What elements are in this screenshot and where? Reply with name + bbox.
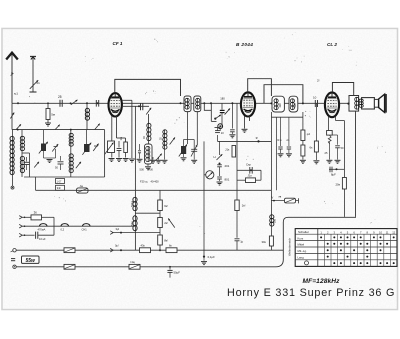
wire B+ joins corner xyxy=(282,249,284,251)
terminal heater 1 xyxy=(19,216,25,219)
svg-text:428: 428 xyxy=(294,103,297,108)
wire T2 bottom xyxy=(271,112,303,117)
svg-text:MF=128kHz: MF=128kHz xyxy=(303,278,341,285)
capacitor 50uF xyxy=(167,266,180,278)
node bus dot 2 xyxy=(210,102,212,104)
earth/ground terminal E1 xyxy=(30,57,37,93)
wire tube1 screen xyxy=(122,100,132,158)
antenna A1 xyxy=(6,53,18,104)
resistor 6k grid leak xyxy=(310,103,320,164)
ground trimmers left xyxy=(44,149,56,163)
trimmer C1 dark xyxy=(39,130,48,154)
svg-text:1м: 1м xyxy=(119,137,123,141)
svg-text:Wellenbereich: Wellenbereich xyxy=(288,237,292,256)
wire heater coil 500 xyxy=(131,197,137,210)
svg-text:3μ!: 3μ! xyxy=(116,227,120,231)
trimmer osc arrow xyxy=(156,154,162,161)
table row label Mittel-Lang xyxy=(298,249,308,253)
svg-text:V: V xyxy=(272,196,274,200)
wire tube2 plate loop xyxy=(248,79,272,96)
capacitor on bus 2 xyxy=(96,100,98,107)
ground tube1 screen xyxy=(129,159,135,162)
svg-text:20и: 20и xyxy=(336,183,341,187)
svg-text:CН1: CН1 xyxy=(82,227,88,231)
wire B- line y267 with corner xyxy=(16,217,356,266)
table row label Kurz xyxy=(298,236,304,240)
table switch-position grid xyxy=(295,229,397,267)
table side label Wellenbereich xyxy=(288,237,292,256)
resistor 8k chain xyxy=(158,235,168,245)
table row label gram xyxy=(305,261,309,265)
label B 2044 (IF amp section) xyxy=(236,42,253,47)
terminal mains a xyxy=(11,249,17,253)
speaker LS neck xyxy=(374,99,378,107)
ground osc2c xyxy=(156,157,162,163)
resistor mains a xyxy=(64,248,75,253)
resistor 30k xyxy=(262,226,274,250)
capacitor 201 xyxy=(217,163,230,169)
wire T1 to grid corner xyxy=(204,103,216,121)
label CL2 (output section) xyxy=(327,42,337,47)
wire diode line xyxy=(275,117,277,190)
coil L2 upper xyxy=(20,130,24,151)
phone jack D xyxy=(204,171,214,179)
speaker LS horn xyxy=(379,94,386,113)
node bus2 a xyxy=(17,129,19,131)
wire tube3 cathode leg xyxy=(328,117,330,131)
capacitor 50 left xyxy=(22,157,30,170)
node tube3 grid xyxy=(324,103,326,105)
svg-text:CL 2: CL 2 xyxy=(327,42,337,47)
switch S1 on bus xyxy=(70,100,78,105)
resistor J1k AF xyxy=(237,170,261,182)
capacitor grid2 xyxy=(229,102,235,138)
svg-text:1μ: 1μ xyxy=(240,240,243,244)
potentiometer 5M volume xyxy=(105,141,115,155)
wire tube3 right leg xyxy=(336,117,345,121)
svg-text:9пF: 9пF xyxy=(57,187,62,190)
resistor 1k heater xyxy=(22,211,54,236)
resistor 14ohm xyxy=(129,260,140,269)
wire B+ line y250 xyxy=(16,244,283,252)
title Horny E 331 Super Prinz 36 G xyxy=(227,287,395,299)
table header Schalter xyxy=(298,230,309,234)
capacitor under tube1 xyxy=(116,141,122,162)
svg-text:ю1: ю1 xyxy=(14,92,18,96)
svg-text:180: 180 xyxy=(220,97,225,101)
capacitor box 1-07 xyxy=(56,179,65,184)
table selection dots xyxy=(320,236,395,264)
label 2prime xyxy=(317,79,320,83)
switch H detector xyxy=(214,141,223,160)
switch osc xyxy=(146,108,151,124)
wire T2 left down xyxy=(270,117,272,190)
node 31 xyxy=(256,136,260,142)
resistor mains c xyxy=(64,264,75,269)
resistor 200 bias xyxy=(336,121,347,217)
svg-text:12: 12 xyxy=(392,230,395,234)
svg-text:2к!: 2к! xyxy=(164,221,168,225)
svg-text:500: 500 xyxy=(140,167,145,171)
capacitor AVC left xyxy=(215,128,225,142)
wire chassis line y190 xyxy=(36,189,272,191)
node antenna junction xyxy=(17,102,19,104)
label 55W box xyxy=(11,256,39,264)
svg-text:6к!: 6к! xyxy=(164,204,168,208)
wire tube2 leg gnd xyxy=(242,116,248,132)
wire AVC line y141 xyxy=(218,140,272,142)
trimmer C4 arrow xyxy=(93,144,98,151)
node bus dot 1 xyxy=(86,102,88,104)
trimmer grid arrow xyxy=(225,108,230,114)
coil L2 lower xyxy=(20,151,24,178)
trimmer C3 dark xyxy=(82,130,91,155)
resistor 43k xyxy=(140,243,151,252)
svg-text:2к!: 2к! xyxy=(242,204,246,208)
wire chain feed xyxy=(159,190,161,200)
IF transformer T2 coil b xyxy=(289,96,298,112)
capacitor 50 mid xyxy=(55,156,64,170)
ground pot xyxy=(109,153,115,162)
svg-text:801: 801 xyxy=(225,178,230,182)
coil L4 upper xyxy=(69,130,73,147)
terminal mains b xyxy=(13,265,16,268)
node T2 left xyxy=(270,102,272,104)
wire tube2 leg b xyxy=(249,116,251,121)
wire left bottom v xyxy=(35,177,37,190)
svg-text:J1к: J1к xyxy=(225,148,230,152)
wire T1 secondary down b xyxy=(196,112,198,145)
switch bus2 s2 xyxy=(55,125,60,130)
resistor 6k chain xyxy=(158,200,168,211)
resistor 6k2 xyxy=(166,243,177,252)
svg-text:470мА: 470мА xyxy=(38,227,46,231)
ground 1M xyxy=(123,153,129,162)
svg-text:10 нF: 10 нF xyxy=(39,237,46,241)
capacitor 10nF line3 xyxy=(22,232,54,241)
RF choke L3 xyxy=(85,103,89,129)
lamp bump 470mA xyxy=(38,224,48,232)
capacitor 0.1uF gnd xyxy=(201,141,215,264)
svg-text:CF 1: CF 1 xyxy=(113,41,123,46)
IF transformer T1 coil a xyxy=(184,96,191,112)
trimmer arrow C-ant xyxy=(30,80,40,89)
wire chain bottom xyxy=(159,245,161,251)
wire chain mid xyxy=(135,211,160,218)
svg-text:Schalter: Schalter xyxy=(298,230,309,234)
svg-text:50μF: 50μF xyxy=(174,271,181,275)
capacitor 0.1 coupling xyxy=(246,163,252,174)
label 1400 xyxy=(148,167,154,171)
svg-text:55w: 55w xyxy=(25,258,36,264)
padder cap 2 xyxy=(191,145,197,164)
capacitor osc pad xyxy=(137,144,143,162)
svg-text:H: H xyxy=(214,155,216,159)
svg-text:201: 201 xyxy=(225,164,230,168)
node speaker xyxy=(347,103,349,105)
label 40-400 xyxy=(151,180,160,184)
osc coil box xyxy=(145,141,153,165)
fuse F1 row xyxy=(271,195,298,203)
svg-text:3!: 3! xyxy=(256,136,259,140)
resistor 1M box xyxy=(119,137,128,153)
label 180 xyxy=(220,97,225,101)
fuse box Jw xyxy=(77,184,89,193)
capacitor series osc xyxy=(138,103,143,110)
svg-text:550: 550 xyxy=(274,218,277,223)
svg-text:500щ: 500щ xyxy=(131,201,134,207)
terminal L1 bottom xyxy=(11,186,14,189)
osc coil choke xyxy=(143,123,151,140)
switch bus2 s1 xyxy=(16,124,21,129)
wire AF line y170 xyxy=(237,169,261,171)
ground osc2b xyxy=(150,157,156,163)
capacitor 801 gnd xyxy=(217,167,230,185)
label F20 xyxy=(140,180,148,184)
coil L4 lower xyxy=(69,146,73,177)
pot arrow chain xyxy=(168,218,175,227)
antenna lead break xyxy=(11,72,14,75)
capacitor box 9nF xyxy=(56,185,65,190)
svg-text:428: 428 xyxy=(279,103,282,108)
speaker LS coil xyxy=(359,98,378,109)
resistor chain x303 xyxy=(300,117,311,163)
svg-text:10: 10 xyxy=(313,96,317,100)
wire antenna to bus2 xyxy=(11,103,13,129)
terminal heater 2 xyxy=(19,224,25,228)
lamp bump CF1 xyxy=(82,224,91,232)
svg-text:Ї400: Ї400 xyxy=(148,167,154,171)
svg-text:Mit.-Lg.: Mit.-Lg. xyxy=(298,249,308,253)
wire tube1 plate loop xyxy=(115,79,181,96)
svg-text:10: 10 xyxy=(379,230,382,234)
lamp bump CL2 xyxy=(61,224,69,232)
capacitor R0 gnd xyxy=(278,117,284,157)
padder dark cap xyxy=(179,144,187,161)
svg-text:40-400: 40-400 xyxy=(151,180,160,184)
svg-text:φ4: φ4 xyxy=(307,132,311,136)
antenna coil L1 xyxy=(10,130,14,186)
resistor J1k xyxy=(225,146,236,158)
capacitor a1 gnd xyxy=(286,117,292,157)
table row label Lang xyxy=(298,256,305,260)
svg-text:1·07: 1·07 xyxy=(57,180,62,183)
node T2 right xyxy=(302,102,304,104)
wire tube1 leg b xyxy=(117,116,126,142)
resistor cathode box xyxy=(327,131,333,144)
switch on antenna drop xyxy=(10,113,14,119)
node bus2 b xyxy=(70,129,72,131)
svg-text:01: 01 xyxy=(37,81,41,85)
svg-text:Lang: Lang xyxy=(298,256,305,260)
wire heater coil 53 xyxy=(131,211,137,251)
terminal heater 3 xyxy=(19,233,25,237)
capacitor 50nF xyxy=(332,135,344,163)
svg-text:0,1μF: 0,1μF xyxy=(208,255,215,259)
wire osc top link xyxy=(184,140,195,150)
node T1 left xyxy=(180,102,182,104)
wire screen feed loop xyxy=(264,85,303,104)
resistor 2k chain xyxy=(158,218,168,228)
wire chain mid2 xyxy=(110,227,160,235)
svg-text:Kurz: Kurz xyxy=(298,236,304,240)
svg-text:Csp: Csp xyxy=(246,163,251,167)
svg-text:F20 щ: F20 щ xyxy=(140,180,148,184)
svg-text:5м: 5м xyxy=(51,113,55,117)
switch arrow mid-left xyxy=(34,162,39,168)
switch detector xyxy=(214,115,221,120)
switch bus2 s3 xyxy=(95,124,100,130)
label 500 xyxy=(140,167,145,171)
wire tube1 leg a xyxy=(111,116,113,141)
label CF1 (RF/IF section) xyxy=(113,41,123,46)
tube CL2 envelope xyxy=(325,92,339,117)
trimmer C2 arrow xyxy=(52,144,58,152)
capacitor grid dark xyxy=(220,103,225,128)
table header numbers xyxy=(320,230,395,234)
svg-text:0μ!: 0μ! xyxy=(115,244,119,248)
capacitor 1uF cathode xyxy=(235,239,244,250)
svg-text:2!: 2! xyxy=(317,79,320,83)
wire cathode bypass y169 xyxy=(329,167,344,177)
trimmer osc2 arrow xyxy=(170,137,175,144)
IF transformer T2 coil a xyxy=(272,96,284,112)
svg-text:25: 25 xyxy=(58,95,62,99)
resistor 5M grid leak xyxy=(45,102,55,126)
resistor 2k AF cathode xyxy=(235,190,246,238)
svg-text:Mittel: Mittel xyxy=(298,243,305,247)
osc coil 2 xyxy=(160,130,168,163)
wire tube1 cathode xyxy=(122,106,149,197)
label MF=128kHz xyxy=(303,278,341,285)
wire grid vertical x237 xyxy=(236,103,238,190)
svg-text:0,2: 0,2 xyxy=(61,227,65,231)
wire main bus1 xyxy=(12,102,349,104)
node T1 right xyxy=(203,102,205,104)
ground cathode xyxy=(325,142,333,163)
label 01 antenna cap xyxy=(14,92,18,96)
svg-text:53щ: 53щ xyxy=(131,221,134,226)
wire T1 secondary down a xyxy=(187,112,189,144)
coil 550 dropper xyxy=(270,190,277,226)
ground osc box xyxy=(145,164,151,170)
svg-text:8μF: 8μF xyxy=(331,172,336,176)
switch arrow mid2 xyxy=(76,162,81,168)
capacitor 10 grid xyxy=(313,96,318,107)
IF transformer T1 coil b xyxy=(194,96,201,112)
wire bus2 corner down xyxy=(24,130,105,177)
tube CF1 envelope xyxy=(109,93,122,116)
svg-text:50: 50 xyxy=(341,146,344,150)
svg-text:8к!: 8к! xyxy=(164,239,168,243)
svg-text:R.о: R.о xyxy=(278,138,283,142)
output transformer T3 xyxy=(349,94,359,217)
table row label Mittel xyxy=(298,243,305,247)
wire L2 tap xyxy=(22,153,30,177)
wire bus2 xyxy=(12,129,105,131)
wire heater line xyxy=(22,225,135,227)
capacitor 25 on bus xyxy=(58,95,62,107)
svg-text:Horny E 331 Super Prinz 36 G: Horny E 331 Super Prinz 36 G xyxy=(227,287,395,299)
diode circle 201 xyxy=(218,124,223,131)
tube B2044 envelope xyxy=(241,92,255,116)
svg-text:B 2044: B 2044 xyxy=(236,42,253,47)
wire tube3 plate loop xyxy=(332,83,353,94)
